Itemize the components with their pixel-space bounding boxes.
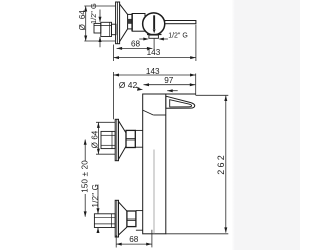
svg-text:150 ± 20: 150 ± 20 xyxy=(81,160,90,193)
svg-text:1/2" G: 1/2" G xyxy=(91,184,100,208)
svg-text:143: 143 xyxy=(147,48,161,57)
svg-text:262: 262 xyxy=(216,153,226,175)
svg-text:1/2" G: 1/2" G xyxy=(89,3,98,24)
svg-text:143: 143 xyxy=(146,67,160,76)
svg-text:68: 68 xyxy=(129,235,139,244)
svg-text:97: 97 xyxy=(164,76,174,85)
svg-text:68: 68 xyxy=(131,39,141,48)
svg-text:Ø64: Ø64 xyxy=(78,10,87,31)
svg-text:1/2" G: 1/2" G xyxy=(168,32,188,39)
svg-text:Ø64: Ø64 xyxy=(91,130,100,148)
svg-text:Ø 42: Ø 42 xyxy=(119,80,138,90)
